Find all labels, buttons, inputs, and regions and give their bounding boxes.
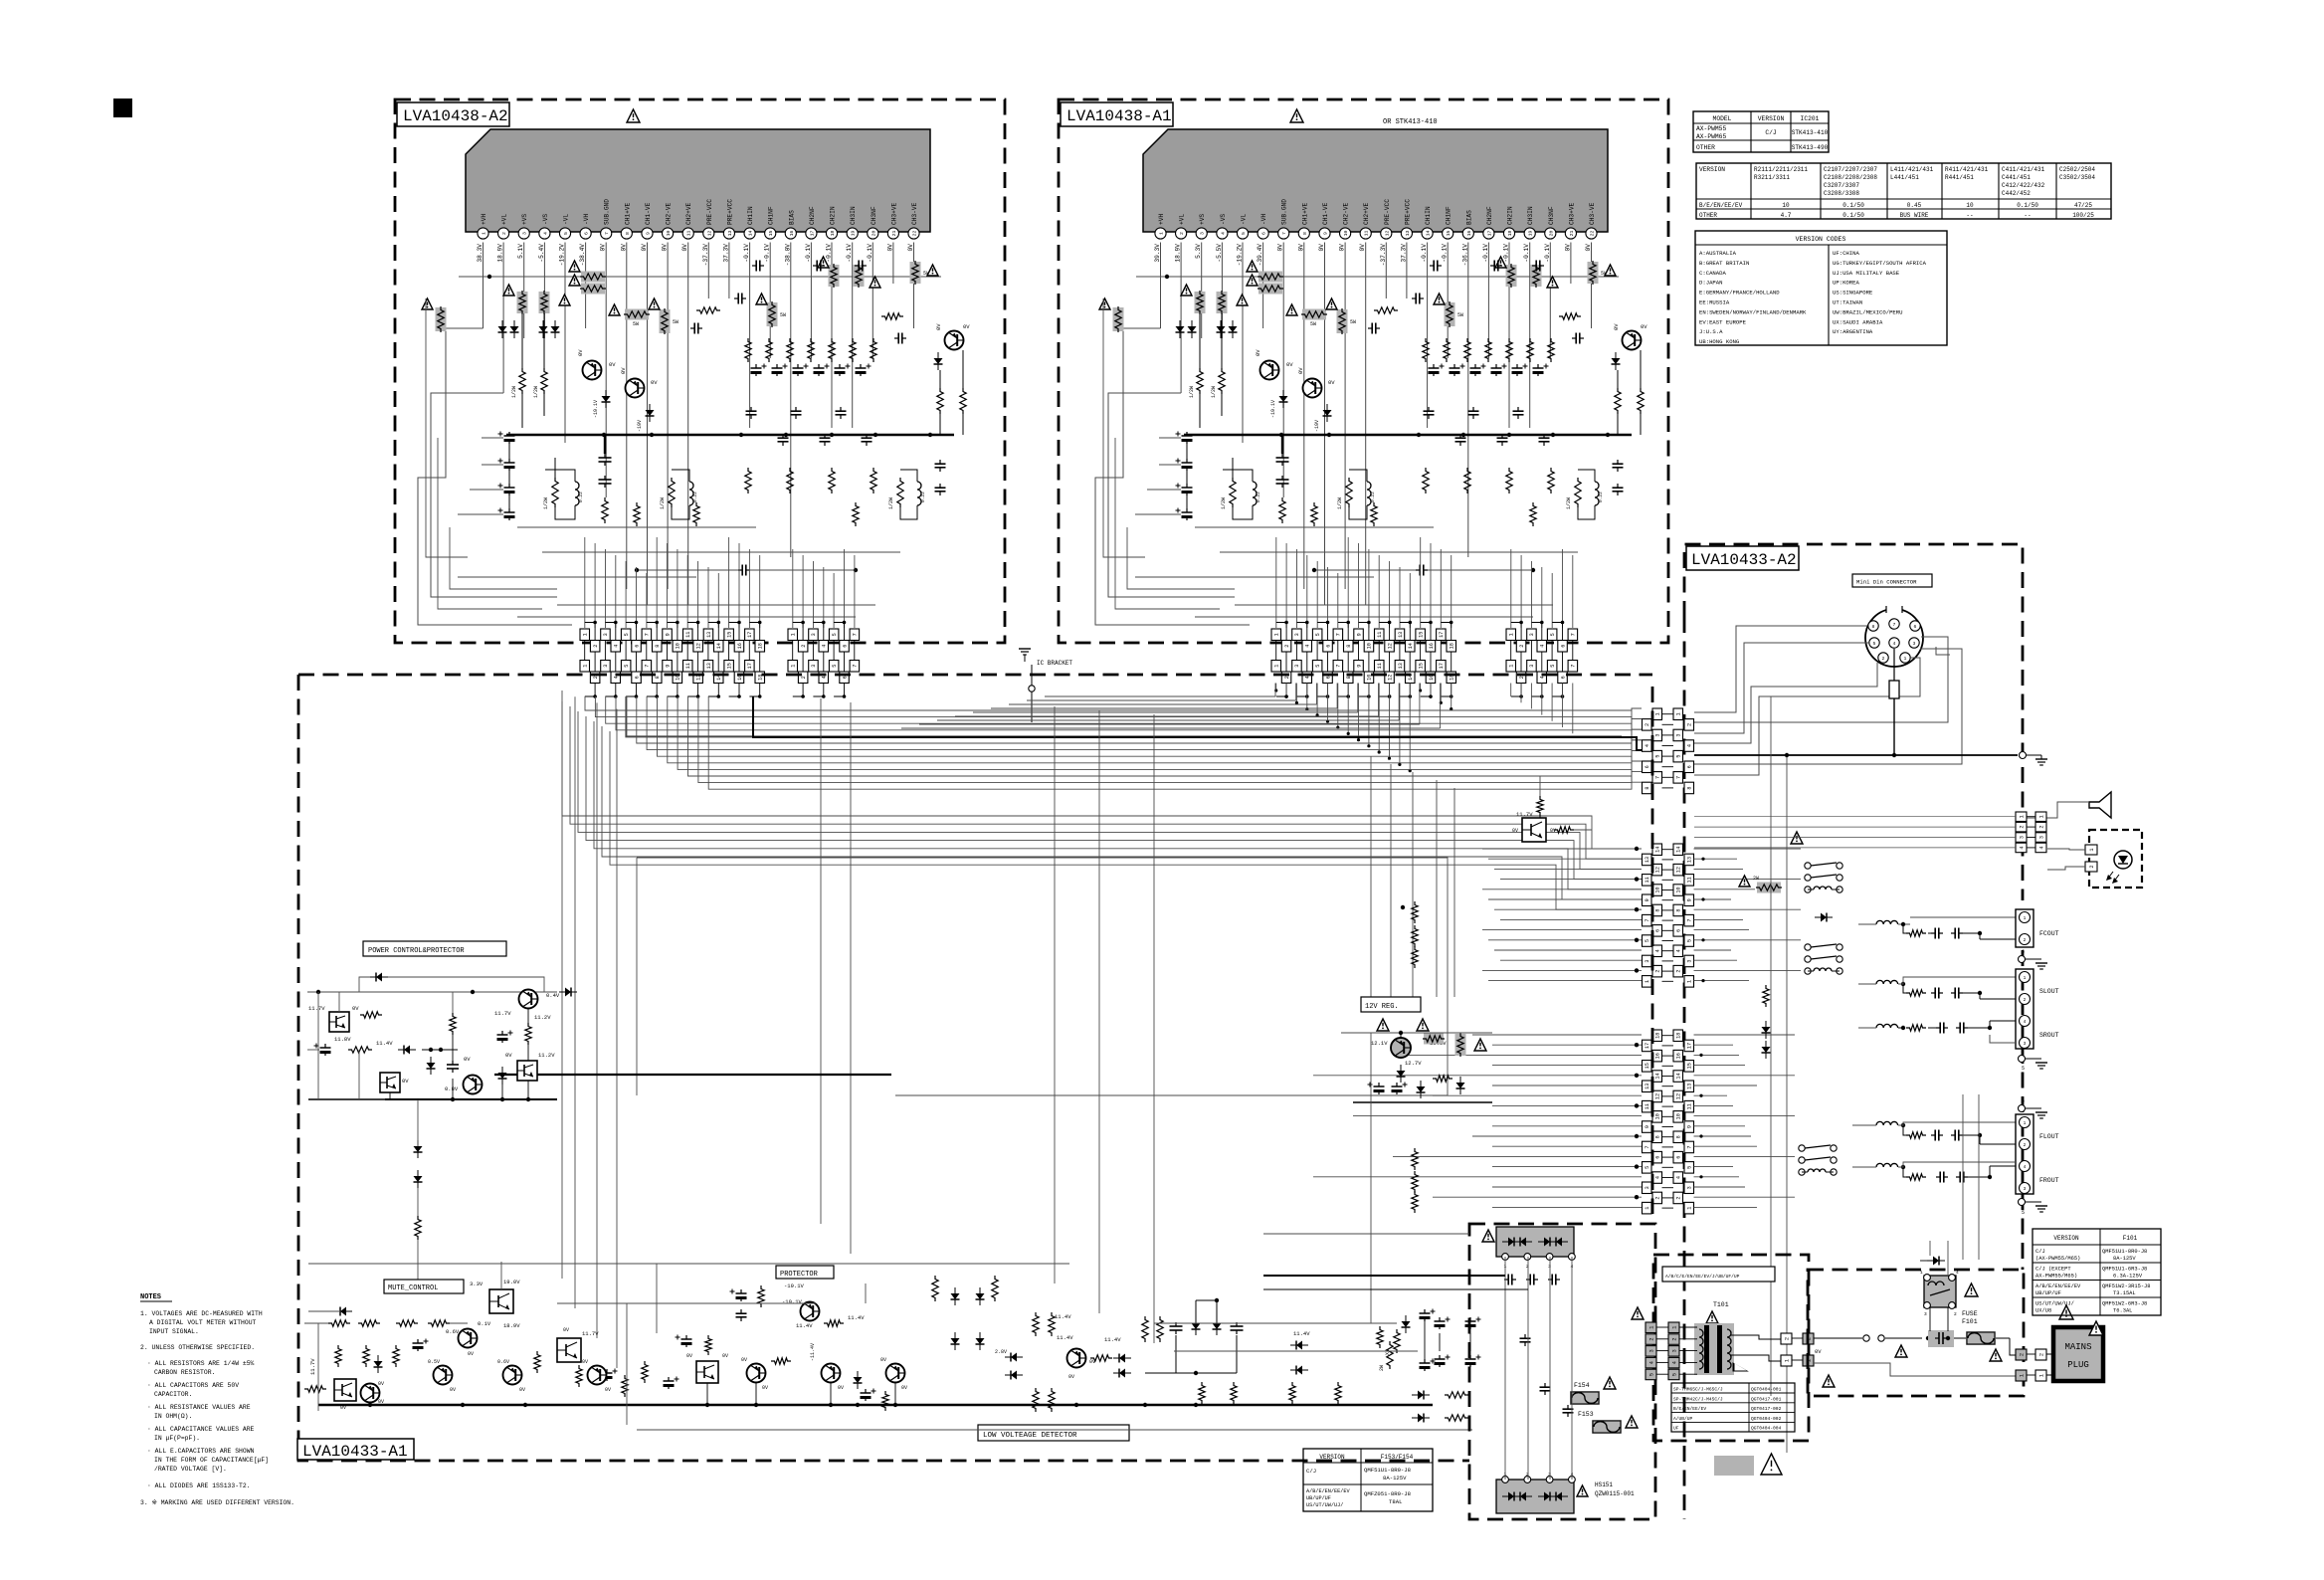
diode D3 <box>1279 396 1288 402</box>
transistor Q 12V regulator <box>1391 1038 1411 1058</box>
svg-text:2: 2 <box>1655 970 1661 973</box>
svg-text:3. ※ MARKING ARE USED DIFFEREN: 3. ※ MARKING ARE USED DIFFERENT VERSION. <box>140 1499 294 1506</box>
ground stub 5 <box>2019 1056 2026 1063</box>
svg-text:CH2IN: CH2IN <box>1507 206 1514 225</box>
svg-text:12: 12 <box>1387 643 1393 649</box>
svg-text:0V: 0V <box>1286 361 1293 368</box>
svg-text:IC201: IC201 <box>1801 115 1820 122</box>
svg-text:CAPACITOR.: CAPACITOR. <box>154 1391 192 1398</box>
svg-text:IN OHM(Ω).: IN OHM(Ω). <box>154 1413 192 1420</box>
svg-text:C442/452: C442/452 <box>2002 190 2031 197</box>
svg-text:4: 4 <box>1540 676 1546 679</box>
svg-text:AX-PWM55: AX-PWM55 <box>1696 125 1726 132</box>
svg-text:5: 5 <box>1687 1166 1693 1169</box>
svg-text:-5.4V: -5.4V <box>538 244 545 263</box>
wire left drop rails <box>561 691 563 1279</box>
bias resistor row 2 <box>1423 468 1429 494</box>
resistor X2 <box>1394 1329 1400 1353</box>
wire detector bold rail dots <box>1143 1403 1147 1407</box>
diode column pair protector <box>951 1293 960 1299</box>
svg-text:3: 3 <box>1913 641 1916 647</box>
svg-text:UG:TURKEY/EGIPT/SOUTH AFRICA: UG:TURKEY/EGIPT/SOUTH AFRICA <box>1833 260 1927 267</box>
svg-text:18: 18 <box>1450 643 1455 649</box>
module label LVA10433-A2 <box>1686 546 1799 570</box>
svg-text:0V: 0V <box>838 1385 844 1391</box>
svg-text:0V: 0V <box>1297 367 1304 374</box>
transistor Q mute boxed 11.7V <box>334 1379 356 1401</box>
resistor tall pair <box>932 1276 938 1301</box>
svg-text:14: 14 <box>1676 847 1682 853</box>
svg-text:1: 1 <box>583 665 589 668</box>
svg-text:1: 1 <box>1904 656 1907 662</box>
svg-text:QGT0417-001: QGT0417-001 <box>1751 1396 1782 1402</box>
svg-text:B/E/EN/EE/EV: B/E/EN/EE/EV <box>1673 1406 1706 1412</box>
svg-text:0V: 0V <box>651 379 658 386</box>
svg-text:C2502/2504: C2502/2504 <box>2059 166 2095 173</box>
module outline mains primary (dashed) <box>1808 1270 2024 1396</box>
svg-text:5: 5 <box>1315 665 1321 668</box>
output filter SROUT <box>1876 1024 1898 1028</box>
svg-text:L441/451: L441/451 <box>1890 174 1919 181</box>
svg-text:A/B/E/EN/EE/EV: A/B/E/EN/EE/EV <box>2035 1284 2081 1289</box>
svg-text:4: 4 <box>1671 1361 1677 1364</box>
svg-text:4: 4 <box>822 676 828 679</box>
svg-text:6: 6 <box>1687 765 1693 768</box>
diode-resistor row 1 <box>1418 1391 1424 1400</box>
svg-text:8: 8 <box>1346 645 1352 648</box>
warning relay <box>1965 1284 1978 1296</box>
resistor R gray pin12 <box>829 265 840 287</box>
svg-text:7: 7 <box>853 665 859 668</box>
svg-text:C2107/2207/2307: C2107/2207/2307 <box>1824 166 1877 173</box>
svg-text:3: 3 <box>1200 232 1206 235</box>
svg-text:7: 7 <box>1893 622 1896 628</box>
resistor R gray pin13 <box>854 265 865 287</box>
svg-text:19: 19 <box>1528 231 1534 237</box>
emitter resistor pair ch2 <box>669 478 675 507</box>
board-to-board connector row (7 pins) <box>1506 629 1516 641</box>
svg-text:LVA10438-A1: LVA10438-A1 <box>1066 107 1172 125</box>
svg-text:13: 13 <box>1687 1084 1693 1089</box>
svg-text:4: 4 <box>1540 645 1546 648</box>
svg-text:LOW VOLTEAGE DETECTOR: LOW VOLTEAGE DETECTOR <box>983 1432 1077 1440</box>
svg-text:3: 3 <box>1924 1311 1927 1317</box>
svg-text:-0.1V: -0.1V <box>867 244 873 263</box>
wire main ground bus (bold) <box>506 434 954 437</box>
svg-text:3: 3 <box>1645 959 1650 962</box>
diode reg <box>1397 1071 1406 1077</box>
svg-text:0V: 0V <box>1550 828 1556 834</box>
svg-text:11: 11 <box>685 632 691 638</box>
svg-text:12.1V: 12.1V <box>1371 1040 1388 1047</box>
wire left exit rails <box>1127 527 1235 589</box>
svg-text:EE:RUSSIA: EE:RUSSIA <box>1699 299 1730 306</box>
svg-text:18: 18 <box>1655 1033 1661 1039</box>
svg-text:14: 14 <box>1426 231 1432 237</box>
svg-text:3: 3 <box>2019 836 2025 839</box>
resistor reg gray <box>1424 1034 1444 1045</box>
svg-text:A/B/C/E/EN/EE/EV/J/UB/UF/UP: A/B/C/E/EN/EE/EV/J/UB/UF/UP <box>1665 1274 1740 1280</box>
warning near relay <box>1791 832 1803 844</box>
svg-text:-0.1V: -0.1V <box>764 244 771 263</box>
transistor Q1 <box>583 361 602 380</box>
wire power control drops <box>417 1099 419 1146</box>
svg-text:5: 5 <box>1315 633 1321 636</box>
svg-text:R441/451: R441/451 <box>1945 174 1974 181</box>
wire reg rails <box>1341 1032 1492 1034</box>
warning T101 <box>1706 1311 1718 1323</box>
wire bold cross rails <box>494 1074 891 1076</box>
svg-text:5: 5 <box>563 232 569 235</box>
svg-text:9: 9 <box>646 232 652 235</box>
svg-text:3: 3 <box>1648 1349 1654 1352</box>
svg-text:7: 7 <box>1645 1145 1650 1148</box>
board-to-board connector row (7 pins) <box>788 629 798 641</box>
svg-text:QMF51W2-3R15-J8: QMF51W2-3R15-J8 <box>2102 1284 2151 1289</box>
svg-text:QMF51U1-6R3-J8: QMF51U1-6R3-J8 <box>2102 1267 2147 1273</box>
svg-text:0.22: 0.22 <box>1370 492 1376 502</box>
svg-text:2: 2 <box>1671 1337 1677 1340</box>
svg-text:FROUT: FROUT <box>2039 1177 2059 1184</box>
capacitor top right <box>1572 337 1576 339</box>
svg-text:13: 13 <box>1398 632 1404 638</box>
svg-text:D:JAPAN: D:JAPAN <box>1699 280 1723 287</box>
svg-text:-37.3V: -37.3V <box>702 244 709 267</box>
svg-text:5W: 5W <box>1350 319 1356 325</box>
svg-text:CH3+VE: CH3+VE <box>1568 202 1575 225</box>
table VERSION component values <box>1696 163 2111 219</box>
svg-text:· ALL CAPACITANCE VALUES ARE: · ALL CAPACITANCE VALUES ARE <box>147 1426 255 1433</box>
svg-text:0V: 0V <box>963 323 970 330</box>
svg-text:PROTECTOR: PROTECTOR <box>780 1271 819 1279</box>
resistor mute left <box>304 1386 326 1392</box>
svg-text:38.3V: 38.3V <box>477 244 484 263</box>
diode-resistor row 2 <box>1418 1414 1424 1423</box>
svg-text:6: 6 <box>584 232 590 235</box>
svg-text:1: 1 <box>1784 1359 1790 1362</box>
diode D4 <box>1323 410 1332 416</box>
wire lower horizontals 2 <box>557 604 875 606</box>
svg-text:-38.4V: -38.4V <box>579 244 586 267</box>
svg-text:J:U.S.A: J:U.S.A <box>1699 328 1723 335</box>
capacitor bottom center <box>738 569 742 571</box>
svg-text:21: 21 <box>1569 231 1575 237</box>
svg-text:7: 7 <box>1336 633 1342 636</box>
svg-text:-0.1V: -0.1V <box>1421 244 1428 263</box>
svg-text:SROUT: SROUT <box>2039 1032 2059 1039</box>
svg-text:6: 6 <box>842 645 848 648</box>
diode D5 <box>1612 358 1621 364</box>
svg-text:0.6V: 0.6V <box>497 1359 509 1365</box>
svg-text:-38.0V: -38.0V <box>784 244 791 267</box>
diode D2 pair <box>1217 326 1226 332</box>
svg-text:2W: 2W <box>1753 876 1759 882</box>
NF caps row2 <box>782 434 784 438</box>
svg-text:5: 5 <box>1645 1166 1650 1169</box>
svg-text:EN:SWEDEN/NORWAY/FINLAND/DENMA: EN:SWEDEN/NORWAY/FINLAND/DENMARK <box>1699 308 1807 315</box>
svg-text:LVA10433-A2: LVA10433-A2 <box>1691 551 1797 569</box>
svg-text:4.7: 4.7 <box>1781 212 1792 219</box>
svg-text:A DIGITAL VOLT METER WITHOUT: A DIGITAL VOLT METER WITHOUT <box>149 1319 257 1326</box>
svg-text:8: 8 <box>1645 786 1650 789</box>
svg-text:CH1+VE: CH1+VE <box>1301 202 1308 225</box>
diode D4 <box>646 410 655 416</box>
resistor R (gray) -VS <box>1217 292 1228 313</box>
svg-text:1: 1 <box>1920 1270 1923 1276</box>
svg-text:C441/451: C441/451 <box>2002 174 2031 181</box>
svg-text:VERSION: VERSION <box>1699 166 1725 173</box>
svg-text:4: 4 <box>1645 744 1650 747</box>
resistor below Q3 <box>937 388 943 414</box>
svg-text:15: 15 <box>1645 1063 1650 1069</box>
wire drops from A1-side connector group C/D <box>1275 684 1277 691</box>
input network capacitors <box>734 297 738 299</box>
svg-text:17: 17 <box>1687 1043 1693 1049</box>
electrolytic main filter caps C151-C154 <box>1439 1317 1441 1321</box>
svg-text:1/2W: 1/2W <box>888 497 894 509</box>
svg-text:0V: 0V <box>1564 244 1571 252</box>
svg-text:11.8V: 11.8V <box>334 1036 351 1043</box>
transistor Q detector filler <box>588 1366 607 1385</box>
svg-text:FCOUT: FCOUT <box>2039 930 2059 937</box>
thermal fuse arrow <box>1733 1363 1747 1371</box>
emitter resistor 0.22 1/2W pair ch1 <box>1230 478 1236 507</box>
svg-text:3: 3 <box>1671 1349 1677 1352</box>
svg-text:2.8V: 2.8V <box>995 1349 1007 1355</box>
svg-text:13: 13 <box>727 231 733 237</box>
transistor Q2 <box>1303 379 1322 398</box>
capacitor X (gray) <box>1928 1330 1954 1347</box>
resistor 2W (gray) <box>436 307 447 331</box>
resistor pair center <box>1142 1316 1148 1342</box>
svg-text:CH2+VE: CH2+VE <box>685 202 692 225</box>
svg-text:15: 15 <box>726 632 732 638</box>
wire DIN routing loops <box>1694 626 1867 712</box>
svg-text:C/J: C/J <box>2035 1249 2045 1255</box>
svg-text:18.9V: 18.9V <box>497 244 504 263</box>
svg-text:2: 2 <box>801 676 807 679</box>
svg-text:11.2V: 11.2V <box>538 1052 555 1059</box>
svg-text:2: 2 <box>2024 997 2027 1003</box>
svg-text:4: 4 <box>2019 846 2025 849</box>
svg-text:L411/421/431: L411/421/431 <box>1890 166 1934 173</box>
resistor protector chain <box>824 1320 844 1326</box>
svg-text:CH1IN: CH1IN <box>1425 206 1432 225</box>
svg-text:0V: 0V <box>468 1351 474 1357</box>
capacitor reg pair <box>1378 1083 1380 1086</box>
input network capacitors <box>1412 297 1416 299</box>
board-to-board connector row second (7 pins) <box>1506 661 1516 673</box>
capacitor mid <box>1524 1334 1526 1338</box>
diode D 11.4V <box>404 1046 410 1055</box>
NF caps row2 <box>1459 434 1461 438</box>
svg-text:13: 13 <box>1405 231 1411 237</box>
svg-text:QGT0404-004: QGT0404-004 <box>1751 1426 1782 1432</box>
svg-text:2: 2 <box>2024 1142 2027 1148</box>
svg-text:11: 11 <box>1377 632 1383 638</box>
svg-text:+VH: +VH <box>481 214 487 225</box>
svg-text:16: 16 <box>1466 231 1472 237</box>
svg-text:7: 7 <box>645 633 651 636</box>
svg-text:8A-125V: 8A-125V <box>2113 1256 2136 1262</box>
capacitor row below bridge <box>1504 1279 1508 1281</box>
svg-text:2: 2 <box>501 232 507 235</box>
svg-text:5: 5 <box>1645 939 1650 942</box>
svg-text:11.4V: 11.4V <box>796 1322 813 1329</box>
capacitor zobel ch3 <box>939 460 941 464</box>
svg-text:1: 1 <box>2019 815 2025 818</box>
svg-text:6: 6 <box>1325 676 1331 679</box>
svg-text:0.45: 0.45 <box>1907 202 1922 209</box>
wire bold feeds <box>1263 1275 1505 1277</box>
svg-text:11.7V: 11.7V <box>1516 811 1533 818</box>
diode D2 pair <box>539 326 548 332</box>
svg-text:LVA10438-A2: LVA10438-A2 <box>403 107 508 125</box>
svg-text:OTHER: OTHER <box>1699 212 1717 219</box>
svg-text:UX:SAUDI ARABIA: UX:SAUDI ARABIA <box>1833 318 1883 325</box>
svg-text:CH2+VE: CH2+VE <box>1363 202 1370 225</box>
svg-text:8: 8 <box>655 676 661 679</box>
svg-text:12: 12 <box>1655 1093 1661 1099</box>
resistor 1/2W pair <box>1197 368 1203 394</box>
capacitor output zobel ch1 <box>1281 454 1283 458</box>
svg-text:0V: 0V <box>1339 244 1346 252</box>
svg-text:9: 9 <box>665 633 671 636</box>
svg-text:QMF51U1-8R0-J8: QMF51U1-8R0-J8 <box>1364 1467 1411 1474</box>
emitter resistor pair ch3 <box>1575 478 1581 507</box>
ground IC BRACKET <box>1019 648 1031 650</box>
svg-text:5: 5 <box>1676 755 1682 758</box>
warning above mains plug <box>2059 1305 2073 1319</box>
svg-text:T3.15AL: T3.15AL <box>2113 1290 2136 1296</box>
fuse F101 <box>1966 1331 1996 1345</box>
svg-text:1: 1 <box>1655 712 1661 715</box>
svg-text:9: 9 <box>1645 898 1650 901</box>
svg-text:UB/UP/UF: UB/UP/UF <box>1306 1495 1331 1501</box>
connector column T101 right (gray) <box>1668 1322 1679 1333</box>
svg-text:CH1-VE: CH1-VE <box>645 202 652 225</box>
module label LVA10438-A2 <box>397 102 509 126</box>
svg-text:13: 13 <box>1645 857 1650 863</box>
svg-text:5W: 5W <box>633 321 639 327</box>
svg-text:5: 5 <box>2022 1066 2025 1072</box>
svg-text:8: 8 <box>1872 624 1875 630</box>
svg-text:0V: 0V <box>1359 244 1366 252</box>
svg-text:CH1-VE: CH1-VE <box>1322 202 1329 225</box>
svg-text:3: 3 <box>1529 633 1535 636</box>
svg-text:20: 20 <box>871 231 876 237</box>
resistor mute chain <box>328 1320 350 1326</box>
svg-text:C411/421/431: C411/421/431 <box>2002 166 2045 173</box>
page registration mark <box>113 99 132 117</box>
resistor 5W (gray) <box>1302 309 1326 320</box>
svg-text:UJ:USA MILITALY BASE: UJ:USA MILITALY BASE <box>1833 270 1900 277</box>
transistor Q2 <box>626 379 645 398</box>
emitter resistor pair ch2 <box>1346 478 1352 507</box>
svg-text:9: 9 <box>1645 1125 1650 1128</box>
svg-text:1/2W: 1/2W <box>511 386 517 398</box>
svg-text:14: 14 <box>716 643 722 649</box>
wire fanout to connectors <box>584 537 586 628</box>
label LOW VOLTEAGE DETECTOR <box>978 1425 1129 1441</box>
svg-text:14: 14 <box>1655 1073 1661 1079</box>
svg-text:2: 2 <box>593 676 599 679</box>
wire elbow joins below connector row <box>585 684 595 696</box>
transistor Q 0.5V 0.1V pair <box>434 1366 453 1385</box>
svg-text:11.4V: 11.4V <box>376 1040 393 1047</box>
svg-text:8: 8 <box>1676 1135 1682 1138</box>
svg-text:-0.1V: -0.1V <box>805 244 812 263</box>
wire trio stubs to rail <box>706 1383 708 1405</box>
svg-text:2: 2 <box>1648 1337 1654 1340</box>
svg-text:37.3V: 37.3V <box>722 244 729 263</box>
svg-text:0V: 0V <box>577 349 584 356</box>
svg-text:0V: 0V <box>605 1387 611 1393</box>
svg-text:0V: 0V <box>722 1353 728 1359</box>
svg-text:-VL: -VL <box>1241 214 1248 225</box>
svg-text:PRE-VCC: PRE-VCC <box>1384 199 1391 225</box>
svg-text:-0.1V: -0.1V <box>1482 244 1489 263</box>
svg-text:QGT0404-001: QGT0404-001 <box>1751 1387 1782 1393</box>
svg-text:17: 17 <box>747 632 753 638</box>
svg-text:3: 3 <box>603 665 609 668</box>
wire left margin vertical <box>317 992 319 1099</box>
table T101 part numbers <box>1671 1383 1795 1432</box>
wire bold bus from connector B2 <box>753 696 1642 750</box>
svg-text:IC BRACKET: IC BRACKET <box>1037 660 1072 667</box>
svg-text:4: 4 <box>1676 949 1682 952</box>
svg-text:CH2IN: CH2IN <box>830 206 837 225</box>
svg-text:UP:KOREA: UP:KOREA <box>1833 280 1859 287</box>
svg-text:PRE-VCC: PRE-VCC <box>706 199 713 225</box>
svg-text:CH2NF: CH2NF <box>1486 206 1493 225</box>
svg-text:NOTES: NOTES <box>140 1293 161 1301</box>
svg-text:0V: 0V <box>352 1005 359 1012</box>
svg-text:4: 4 <box>822 645 828 648</box>
svg-text:1: 1 <box>2089 848 2095 851</box>
output filter FROUT <box>1876 1163 1898 1167</box>
resistor 5W (gray) vertical 2 <box>1445 302 1455 326</box>
svg-text:10: 10 <box>1655 1113 1661 1119</box>
svg-text:CH3NF: CH3NF <box>871 206 877 225</box>
resistor R (gray) pair -VH rail <box>581 272 605 283</box>
svg-text:-VL: -VL <box>563 214 570 225</box>
svg-text:6: 6 <box>1676 1156 1682 1159</box>
svg-text:6: 6 <box>1676 929 1682 932</box>
svg-text:12: 12 <box>1384 231 1390 237</box>
svg-text:· ALL RESISTORS ARE 1/4W ±5%: · ALL RESISTORS ARE 1/4W ±5% <box>147 1360 255 1367</box>
power amp IC IC201 LVA10438-A2 <box>466 129 930 232</box>
svg-text:CH3IN: CH3IN <box>850 206 857 225</box>
svg-text:0V: 0V <box>935 323 942 330</box>
svg-text:X2: X2 <box>1385 1349 1391 1355</box>
svg-text:6: 6 <box>1655 929 1661 932</box>
svg-text:1: 1 <box>583 633 589 636</box>
resistor protector h <box>771 1358 791 1364</box>
svg-text:9: 9 <box>1687 898 1693 901</box>
output L networks <box>634 502 640 526</box>
wire primary neutral <box>1814 1363 2016 1376</box>
svg-text:18.9V: 18.9V <box>503 1322 520 1329</box>
diode below ecap <box>498 1073 507 1079</box>
svg-text:9: 9 <box>1687 1125 1693 1128</box>
svg-text:F153: F153 <box>1578 1411 1594 1418</box>
connector mains 2/1 pair <box>2016 1349 2027 1360</box>
svg-text:10: 10 <box>666 231 672 237</box>
board-to-board connector row second (7 pins) <box>788 661 798 673</box>
diode stack lower left <box>414 1146 423 1152</box>
connector column CN203 18-1 (A2 side) <box>1673 1030 1683 1042</box>
